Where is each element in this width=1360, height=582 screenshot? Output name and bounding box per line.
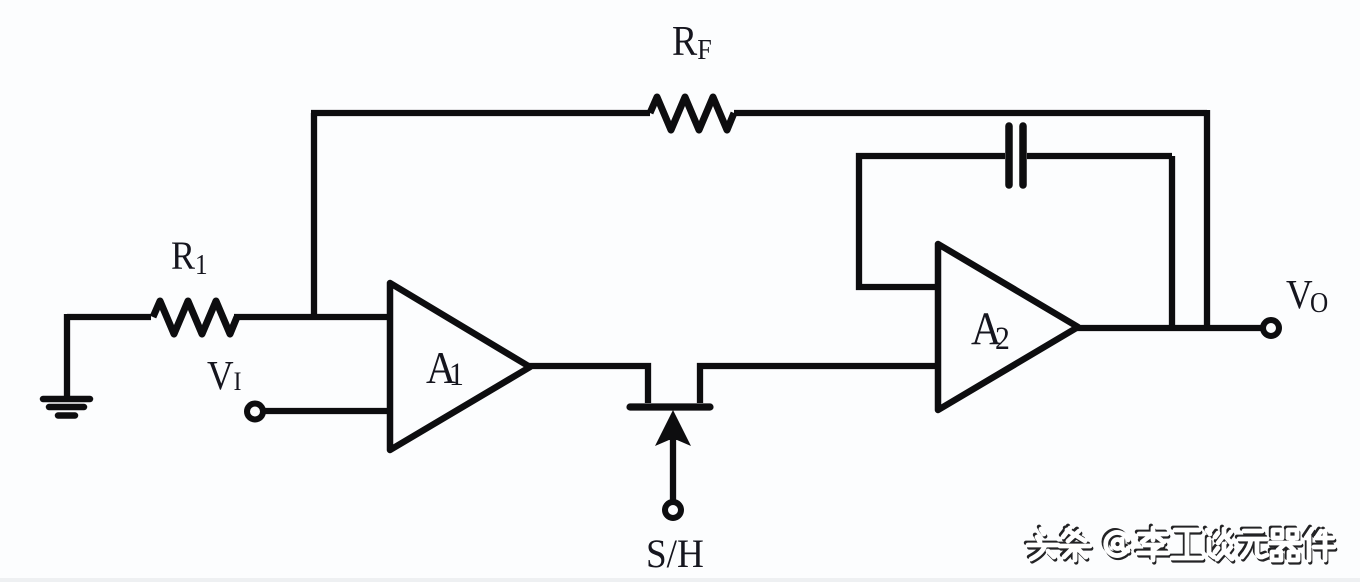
wire: ground branch horizontal to R1: [67, 314, 151, 320]
wire: A2 non-inverting (top) input to capacitor loop left leg: [859, 156, 1005, 287]
wire: VI terminal to A1 non-inverting input: [261, 408, 390, 414]
op-amp A1: [390, 283, 530, 450]
capacitor C1: [1009, 126, 1023, 185]
svg-text:V: V: [1286, 272, 1313, 317]
wire: vertical from A1 input node up to top feedback rail: [311, 113, 317, 317]
wire: capacitor right plate to feedback drop: [1027, 153, 1172, 159]
wire: A2 output to VO terminal: [1075, 325, 1262, 331]
wire: capacitor feedback vertical drop to output: [1169, 156, 1175, 328]
wire: right vertical drop from top rail to output node: [1204, 110, 1210, 328]
S/H control gate arrow and terminal: [655, 410, 691, 518]
svg-text:S/H: S/H: [646, 533, 704, 576]
wire: A1 output to switch drain: [527, 366, 648, 403]
resistor R1: [153, 301, 237, 334]
svg-text:O: O: [1310, 287, 1328, 319]
wire: top rail left segment to RF: [311, 110, 650, 116]
resistor RF: [650, 97, 734, 130]
wire: top rail right segment from RF to right drop: [734, 110, 1207, 116]
watermark 头条 @李工谈元器件: [1026, 526, 1335, 563]
input terminal VI: [247, 404, 263, 420]
svg-text:2: 2: [995, 320, 1010, 357]
transistor Q1 (S/H analog switch): [630, 366, 938, 407]
ground: [43, 399, 90, 416]
wire: ground vertical: [64, 314, 70, 398]
svg-text:1: 1: [449, 356, 464, 393]
op-amp A2: [938, 244, 1078, 410]
output terminal VO: [1263, 320, 1279, 336]
wire: R1 to A1 inverting input: [234, 314, 390, 320]
